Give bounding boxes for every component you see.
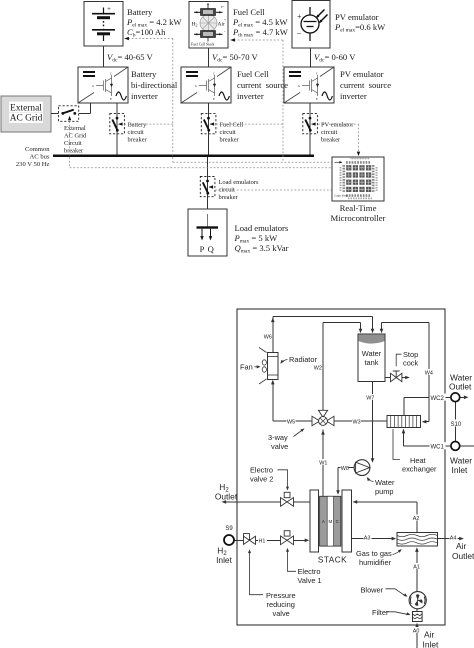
svg-text:A4: A4 [450, 535, 457, 541]
svg-text:Water: Water [450, 456, 472, 466]
svg-text:AC bus: AC bus [30, 154, 50, 161]
svg-text:Outlet: Outlet [452, 551, 474, 561]
svg-text:Fuel Cell: Fuel Cell [237, 69, 269, 79]
svg-text:tank: tank [365, 358, 379, 367]
svg-text:Blower: Blower [361, 586, 384, 595]
svg-text:inverter: inverter [237, 91, 264, 101]
svg-text:Inlet: Inlet [216, 555, 233, 565]
svg-text:A2: A2 [413, 516, 420, 522]
svg-text:230 V 50 Hz: 230 V 50 Hz [16, 161, 50, 168]
svg-text:+: + [107, 5, 111, 13]
svg-text:Air: Air [218, 22, 226, 28]
svg-text:Q: Q [208, 244, 215, 254]
svg-text:circuit: circuit [321, 129, 338, 136]
svg-text:breaker: breaker [128, 137, 148, 144]
svg-text:PV emulator: PV emulator [321, 122, 354, 129]
svg-text:Outlet: Outlet [215, 492, 238, 502]
svg-text:External: External [64, 125, 86, 132]
svg-text:cock: cock [403, 359, 419, 368]
svg-text:Valve 1: Valve 1 [298, 576, 322, 585]
svg-text:Inlet: Inlet [423, 640, 440, 648]
svg-text:valve: valve [271, 442, 288, 451]
svg-text:W8: W8 [341, 466, 349, 472]
svg-text:Battery: Battery [128, 122, 148, 129]
svg-text:Logic block: Logic block [335, 195, 349, 198]
svg-text:Fuel Cell Stack: Fuel Cell Stack [191, 43, 215, 47]
svg-text:Common: Common [25, 146, 50, 153]
svg-text:Air: Air [424, 630, 434, 640]
svg-text:Vdc= 50-70 V: Vdc= 50-70 V [212, 52, 258, 64]
svg-text:W7: W7 [366, 395, 374, 401]
svg-text:breaker: breaker [219, 194, 239, 201]
svg-text:Battery: Battery [127, 7, 153, 17]
svg-text:Vdc= 40-65 V: Vdc= 40-65 V [107, 52, 153, 64]
svg-text:Load emulators: Load emulators [235, 223, 289, 233]
svg-text:Circuit: Circuit [64, 140, 82, 147]
svg-text:P: P [200, 244, 205, 254]
svg-text:Water: Water [362, 349, 382, 358]
svg-text:Fuel Cell: Fuel Cell [233, 7, 265, 17]
svg-text:H2: H2 [192, 22, 198, 28]
svg-text:+: + [297, 12, 302, 21]
svg-text:Fan: Fan [240, 363, 253, 372]
svg-text:Electro: Electro [250, 466, 273, 475]
svg-text:WC2: WC2 [431, 396, 445, 402]
svg-text:Load emulators: Load emulators [219, 179, 259, 186]
svg-text:humidifier: humidifier [359, 558, 392, 567]
svg-text:Qmax = 3.5 kVar: Qmax = 3.5 kVar [235, 243, 289, 255]
svg-text:A1: A1 [413, 564, 420, 570]
svg-text:Pth max = 4.7 kW: Pth max = 4.7 kW [232, 27, 289, 39]
svg-text:Outlet: Outlet [449, 382, 472, 392]
svg-text:Real-Time: Real-Time [340, 203, 377, 213]
svg-text:circuit: circuit [128, 129, 145, 136]
svg-text:STACK: STACK [318, 556, 347, 565]
svg-text:W3: W3 [353, 419, 361, 425]
svg-text:breaker: breaker [64, 148, 84, 155]
svg-text:Fuel Cell: Fuel Cell [220, 122, 244, 129]
svg-text:Vdc= 0-60 V: Vdc= 0-60 V [314, 52, 356, 64]
svg-text:AC Grid: AC Grid [10, 114, 43, 124]
svg-text:bi-directional: bi-directional [131, 80, 178, 90]
svg-text:circuit: circuit [220, 129, 237, 136]
svg-text:PV emulator: PV emulator [335, 12, 379, 22]
svg-text:W2: W2 [314, 365, 322, 371]
svg-text:W6: W6 [264, 334, 272, 340]
svg-text:S10: S10 [451, 422, 462, 428]
svg-text:W5: W5 [287, 419, 295, 425]
svg-text:3-way: 3-way [268, 433, 288, 442]
svg-text:current source: current source [237, 80, 288, 90]
svg-text:M: M [328, 519, 332, 524]
svg-text:A0: A0 [413, 628, 420, 634]
svg-text:inverter: inverter [340, 91, 367, 101]
svg-text:valve 2: valve 2 [250, 475, 273, 484]
svg-text:C: C [110, 72, 112, 76]
svg-text:Radiator: Radiator [289, 355, 317, 364]
svg-text:+: + [224, 18, 226, 22]
svg-text:WC1: WC1 [431, 445, 445, 451]
svg-text:Filter: Filter [372, 608, 389, 617]
svg-text:inverter: inverter [131, 91, 158, 101]
svg-text:valve: valve [273, 609, 290, 618]
svg-text:Inlet: Inlet [452, 465, 469, 475]
svg-text:AC Grid: AC Grid [64, 133, 87, 140]
svg-text:E: E [110, 97, 112, 101]
svg-text:Cb=100 Ah: Cb=100 Ah [127, 27, 166, 39]
svg-text:breaker: breaker [220, 137, 240, 144]
svg-text:Pressure: Pressure [266, 591, 296, 600]
svg-text:Microcontroller: Microcontroller [330, 213, 385, 223]
svg-text:H1: H1 [259, 539, 266, 545]
svg-text:−: − [297, 29, 302, 39]
svg-text:Gas to gas: Gas to gas [356, 549, 392, 558]
svg-text:Electro: Electro [298, 567, 321, 576]
svg-text:Water: Water [375, 478, 395, 487]
svg-text:External: External [10, 104, 42, 114]
svg-text:breaker: breaker [321, 137, 341, 144]
svg-text:Pel max=0.6 kW: Pel max=0.6 kW [334, 22, 386, 34]
svg-text:A3: A3 [364, 535, 371, 541]
svg-text:exchanger: exchanger [402, 465, 437, 474]
svg-text:PV emulator: PV emulator [340, 69, 384, 79]
svg-text:reducing: reducing [267, 600, 295, 609]
svg-text:current source: current source [340, 80, 391, 90]
svg-text:W1: W1 [319, 460, 327, 466]
svg-text:Battery: Battery [131, 69, 157, 79]
svg-text:W4: W4 [425, 370, 433, 376]
svg-text:pump: pump [375, 487, 394, 496]
svg-text:S9: S9 [225, 526, 233, 532]
svg-text:Air: Air [456, 541, 466, 551]
